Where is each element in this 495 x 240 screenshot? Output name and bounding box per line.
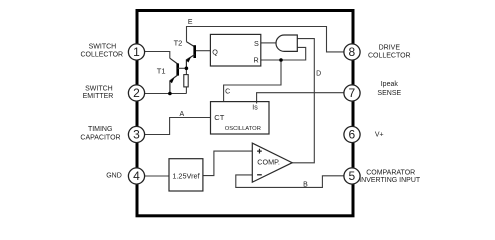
svg-text:INVERTING INPUT: INVERTING INPUT	[359, 177, 421, 184]
svg-text:1: 1	[133, 45, 140, 59]
svg-text:CAPACITOR: CAPACITOR	[80, 134, 120, 141]
svg-text:B: B	[303, 181, 308, 188]
wire latch R to AND lower input	[261, 47, 306, 60]
pin 4	[128, 168, 144, 184]
svg-text:E: E	[188, 19, 193, 26]
svg-text:V+: V+	[375, 131, 384, 138]
wire node C : oscillator output to R line	[224, 60, 281, 102]
wire node B : comparator - input to pin5	[236, 175, 344, 188]
svg-text:CT: CT	[214, 113, 224, 122]
wire pin1 to T1 collector	[145, 52, 170, 59]
svg-text:C: C	[225, 89, 230, 96]
transistor T1	[170, 58, 187, 93]
svg-text:Is: Is	[252, 104, 258, 111]
AND gate (mirrored, output to left)	[276, 35, 297, 51]
svg-text:Ipeak: Ipeak	[381, 81, 399, 88]
svg-text:SWITCH: SWITCH	[89, 44, 117, 51]
wire node Is : pin7 to oscillator	[257, 93, 344, 104]
comparator	[252, 143, 292, 182]
pin 5	[344, 168, 360, 184]
resistor (T2 emitter)	[184, 68, 188, 93]
svg-text:DRIVE: DRIVE	[379, 45, 401, 52]
svg-text:COLLECTOR: COLLECTOR	[80, 52, 123, 59]
svg-text:D: D	[316, 70, 321, 77]
svg-text:1.25Vref: 1.25Vref	[172, 171, 200, 180]
svg-text:COMPARATOR: COMPARATOR	[366, 169, 415, 176]
pin 3	[128, 126, 144, 142]
svg-text:R: R	[254, 55, 259, 64]
wire node A : pin3 to oscillator CT	[145, 118, 211, 135]
SR latch U1	[210, 34, 260, 66]
pin 8	[344, 44, 360, 60]
svg-text:4: 4	[133, 169, 140, 183]
svg-text:SWITCH: SWITCH	[85, 85, 113, 92]
svg-text:7: 7	[348, 86, 355, 100]
svg-text:GND: GND	[106, 173, 122, 180]
wire pin4 to Vref	[145, 175, 169, 177]
wire node D : comparator output to AND upper input	[292, 39, 314, 163]
svg-text:A: A	[179, 111, 184, 118]
junction C net on R line	[279, 58, 283, 62]
pin 7	[344, 85, 360, 101]
svg-text:8: 8	[348, 45, 355, 59]
transistor T2	[186, 42, 195, 69]
junction T1 emitter on pin2 line	[168, 92, 172, 96]
pin 1	[128, 44, 144, 60]
wire pin2 emitter line	[145, 93, 186, 95]
1.25V reference block	[169, 159, 203, 191]
junction T2 emitter / T1 base / resistor	[185, 67, 189, 71]
wire Vref to comparator + input	[203, 151, 252, 176]
svg-text:COMP.: COMP.	[257, 158, 280, 167]
svg-text:2: 2	[133, 86, 140, 100]
svg-text:SENSE: SENSE	[377, 90, 401, 97]
wire latch Q to T2 base	[195, 50, 211, 52]
pin 6	[344, 126, 360, 142]
svg-text:T2: T2	[174, 38, 183, 47]
svg-text:S: S	[254, 39, 259, 48]
svg-text:COLLECTOR: COLLECTOR	[368, 53, 411, 60]
svg-text:6: 6	[348, 128, 355, 142]
svg-text:EMITTER: EMITTER	[83, 93, 114, 100]
svg-text:T1: T1	[157, 67, 166, 76]
svg-text:Q: Q	[212, 47, 218, 56]
wire AND output to latch S	[261, 42, 276, 44]
svg-text:OSCILLATOR: OSCILLATOR	[225, 126, 261, 132]
wire node E : T2 collector to pin8	[187, 27, 344, 52]
svg-text:3: 3	[133, 128, 140, 142]
svg-text:TIMING: TIMING	[88, 126, 113, 133]
oscillator block	[211, 102, 270, 134]
svg-text:5: 5	[348, 169, 355, 183]
pin 2	[128, 85, 144, 101]
IC package outline	[137, 11, 353, 216]
